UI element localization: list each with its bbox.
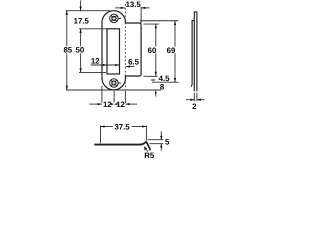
svg-text:12: 12 xyxy=(103,100,112,109)
svg-text:13.5: 13.5 xyxy=(126,0,142,9)
svg-text:12: 12 xyxy=(116,100,125,109)
svg-text:85: 85 xyxy=(63,45,72,54)
svg-text:37.5: 37.5 xyxy=(114,123,130,132)
svg-text:6.5: 6.5 xyxy=(128,58,140,67)
svg-text:69: 69 xyxy=(167,46,176,55)
svg-text:12: 12 xyxy=(91,56,100,65)
svg-text:8: 8 xyxy=(160,83,165,92)
svg-text:2: 2 xyxy=(192,102,197,111)
svg-text:17.5: 17.5 xyxy=(74,16,90,25)
svg-text:50: 50 xyxy=(76,45,85,54)
svg-text:5: 5 xyxy=(165,138,170,147)
svg-text:60: 60 xyxy=(148,46,157,55)
svg-text:R5: R5 xyxy=(144,151,155,160)
